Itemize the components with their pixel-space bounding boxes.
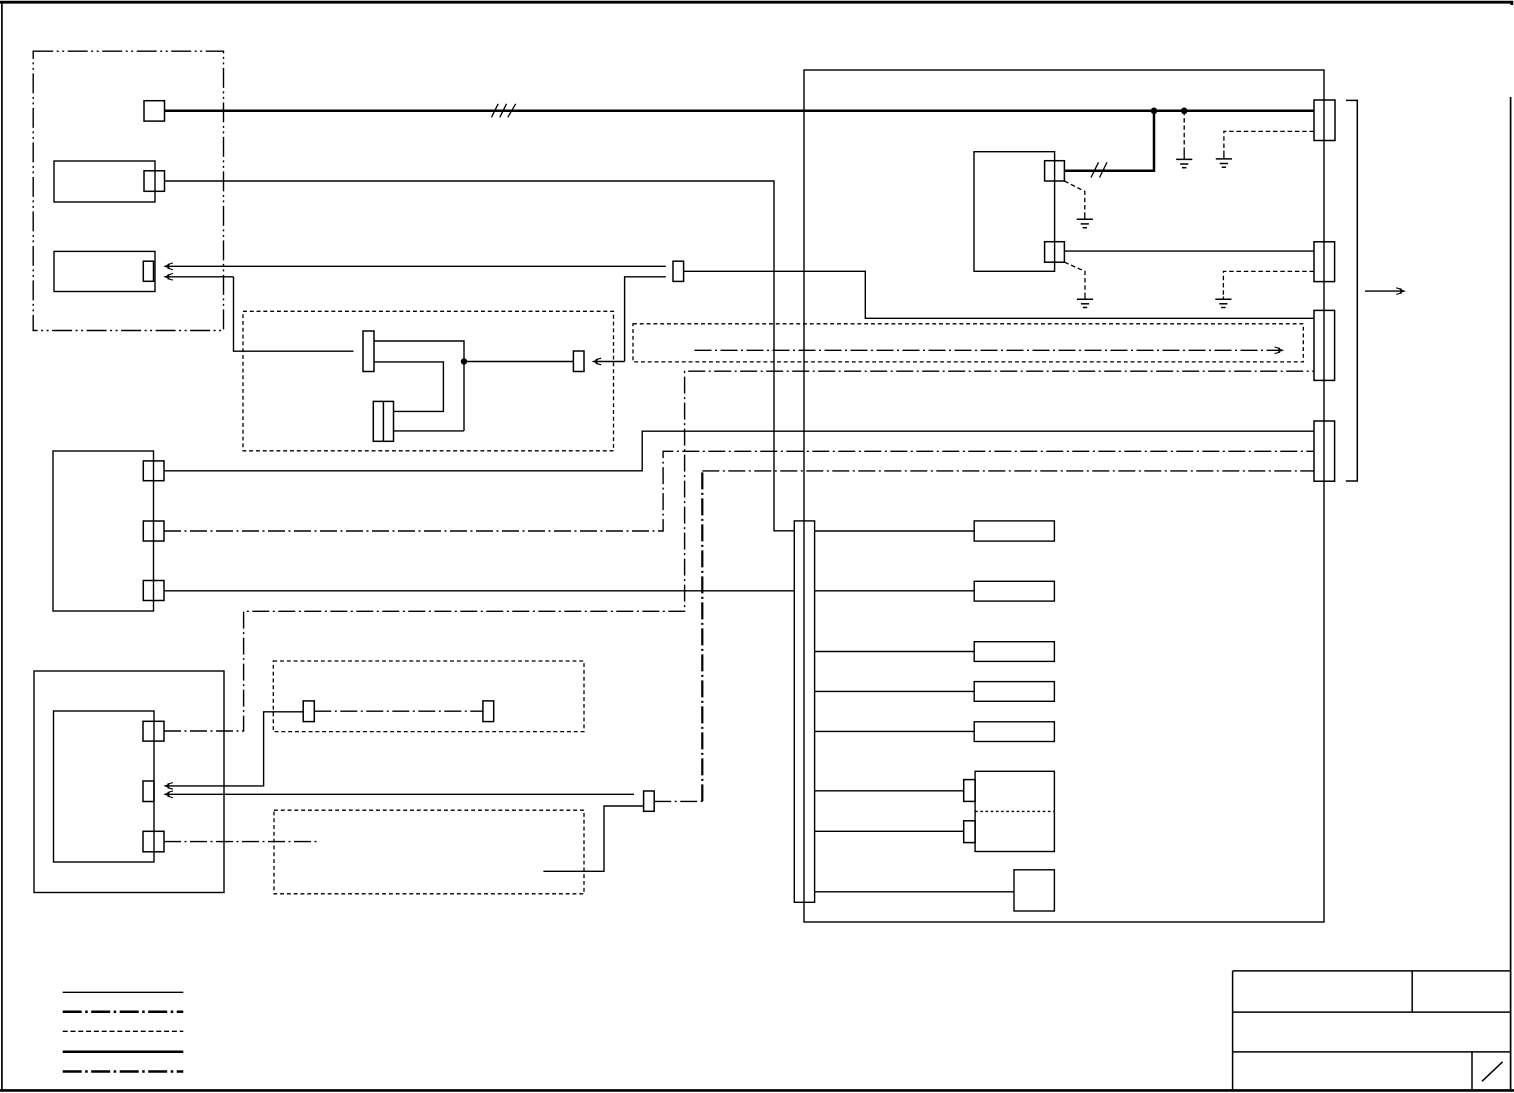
branch wire to fuse F2 [815,590,975,592]
wire break slashes on W1 [492,104,516,118]
connector C1 (top-left pin) [144,101,165,121]
connector K4 (right edge) [1314,421,1335,481]
page bottom border [0,1089,1514,1092]
main control unit box B7 [804,70,1324,922]
legend line 4 (bold solid) [63,1051,184,1054]
connector C7 (mid pin lower) [644,791,655,811]
connector C6c on B6 [143,831,164,852]
junction node J2 [1151,108,1158,115]
wire with arrow A1 into B3 [163,263,666,270]
connector C8a on B8 [1045,161,1065,181]
branch wire to T1 [815,790,964,792]
connector C2 on B2 [144,171,165,192]
wire W9 from C4a to connector K4 [164,431,1314,471]
dotted box D4 (sensor group lower) [274,810,584,894]
dotted box D3 (sensor group upper) [273,661,584,732]
component box B3 (top-left) [54,251,155,291]
plate P1 [363,331,374,372]
fuse box F4 [974,682,1054,702]
page left border [1,4,3,1090]
legend line 2 (bold dash-dot) [63,1011,184,1014]
ground G1 (below C8a) [1064,181,1093,228]
wire break slashes on W18 [1091,162,1107,177]
connector C4c on B4 [143,581,164,601]
connector C6b on B6 [143,781,154,802]
connector C3 on B3 [143,261,153,281]
dotted box D2 (long shield) [633,324,1303,362]
wire W19 from C8b to connector K2 [1064,250,1314,252]
ground G5 (below C8b) [1064,262,1093,307]
fuse box F3 [974,642,1054,662]
branch wire to box F7 [815,891,1014,893]
wire W3 down to capacitor plate [234,277,354,351]
connector K2 (right edge) [1314,242,1335,282]
thick wire W18 from C8a to W1 [1064,111,1154,171]
connector C4 (mid pin) [673,261,684,281]
legend line 3 (thin dashed) [63,1030,184,1032]
wire with arrow A3 into P2 [591,277,665,365]
component box B2 (top-left) [54,161,155,202]
wire W2 from B2 to bus [165,181,795,531]
relay box F6 (two-section) [975,771,1054,851]
connector K3 (right edge) [1314,310,1335,380]
outer box B5 (bottom-left unit) [34,671,224,893]
wire from P3 bottom to junction [394,430,464,432]
pin R1 in D3 [303,701,314,722]
page right border [1510,97,1512,1090]
plate P2 [573,351,584,372]
junction node J1 [461,358,467,364]
branch wire to fuse F5 [815,730,975,732]
connector C8b on B8 [1045,242,1065,263]
wire from P1 bottom loop to P3 [374,362,443,412]
wire W11 from C4c to bus [164,590,794,592]
wire W12 with arrow A4 into C6b [163,712,303,789]
inner box B6 [54,711,155,862]
branch wire to T2 [815,830,964,832]
branch wire to fuse F4 [815,690,975,692]
dash-dot stub W14 from C6c [164,841,319,843]
legend line 5 (bold dash-dot) [63,1070,184,1073]
branch wire to fuse F3 [815,651,975,653]
plate P3 (double plate) [373,401,393,441]
dash-dot wire W10 from C4b to connector K4 [164,451,1314,531]
connector C6a on B6 [143,721,164,741]
page top border [0,2,1512,5]
connector C4a on B4 [143,461,164,481]
ground G4 (from connector K2) [1215,271,1314,307]
connector C4b on B4 [143,521,164,541]
wire W16 from D4 to connector C7 [543,806,643,871]
fuse box F1 [974,521,1054,541]
title block diagonal slash [1482,1062,1503,1082]
branch wire to fuse F1 [815,530,975,532]
pin tab T2 on F6 [964,821,975,843]
fuse box F5 [974,722,1054,742]
fuse box F2 [974,581,1054,601]
small box F7 [1014,870,1054,911]
bracket grouping K1-K4 [1346,100,1358,481]
wire with arrow A2 into B3 [163,274,233,281]
wire W6 from C4 to connector K3 [684,271,1314,318]
dash-dot wire W17 from C7 to connector K4 [654,471,1314,802]
wire W4 junction to plate P2 [464,361,573,363]
dotted box D1 (ignition coil assembly) [243,311,614,451]
dash-dot arrow W7 inside D2 [695,347,1285,354]
ground G3 (from connector K1) [1216,131,1314,167]
connector K1 (right edge) [1314,100,1335,141]
wire from P1 top to junction [374,341,464,431]
relay box B8 inside B7 [974,152,1055,272]
pin tab T1 on F6 [964,780,975,802]
legend line 1 (thin solid) [63,991,184,993]
wire W13 with arrow A5 into C6b [163,791,634,798]
bus connector strip on B7 left edge [794,521,814,902]
pin R2 in D3 [483,701,494,722]
dash-dot wire W15 between R1 and R2 [314,710,483,712]
dash-dot-dot enclosure box (top-left harness) [33,51,223,330]
component box B4 (mid-left) [53,451,154,611]
thick power wire W1 [165,110,1315,113]
junction node J3 [1181,108,1188,115]
title block frame [1233,971,1511,1090]
ground G2 (from J3) [1176,111,1192,168]
arrow A6 (off-page pointer) [1365,288,1406,295]
dash-dot wire W8 from inner box to connector K3 [164,371,1314,731]
